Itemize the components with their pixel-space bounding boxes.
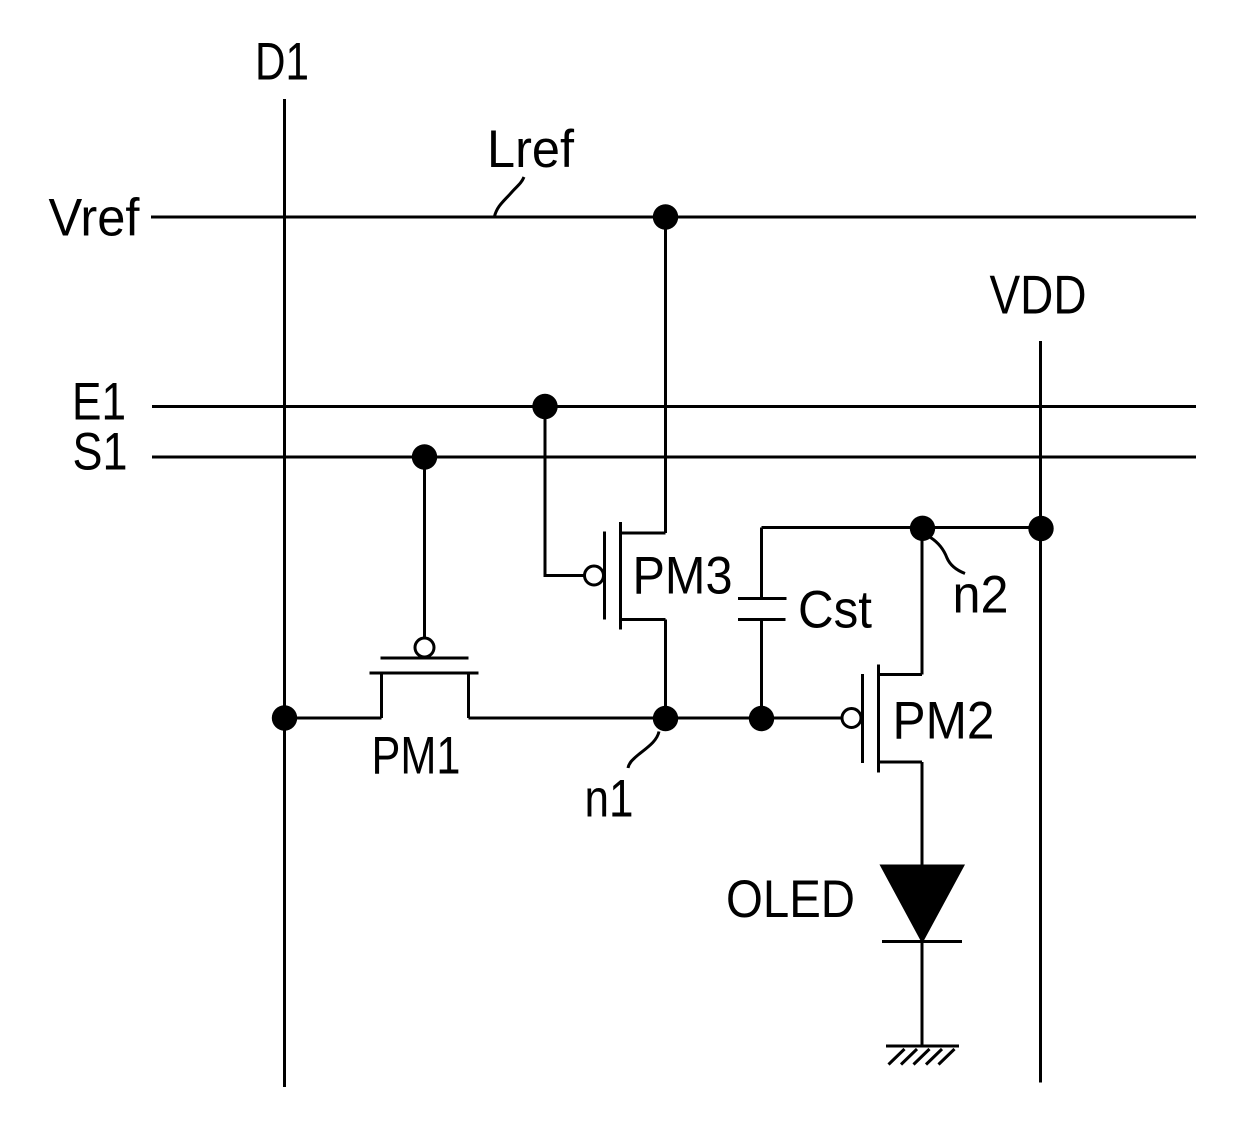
svg-text:n1: n1 [585,770,634,829]
wire PM1 to n1 to Cst to PM2 gate [469,717,842,720]
wire Lref drop from Vref to PM3 drain [664,217,667,533]
svg-text:Cst: Cst [798,581,872,640]
node n2 junction dot [910,516,935,541]
wire main row D1 to PM1 [285,717,382,720]
leader squiggle n2 [931,538,966,574]
wire S1 drop to PM1 gate [423,457,426,638]
svg-text:D1: D1 [255,33,309,92]
svg-text:PM2: PM2 [893,692,995,751]
transistor PM2 [842,528,922,866]
node junction dot E1 drop [532,394,557,419]
node junction dot Cst bottom [749,706,774,731]
capacitor Cst [738,528,787,719]
node junction dot Vref-Lref [653,204,678,229]
ground [886,1046,959,1065]
node junction dot VDD-n2 [1028,516,1053,541]
wire Vref horizontal line [151,216,1196,219]
wire S1 horizontal line [152,456,1196,459]
svg-text:n2: n2 [953,566,1009,625]
transistor PM3 [585,522,666,718]
wire D1 data line vertical [283,99,286,1087]
leader squiggle Lref [495,177,525,217]
svg-text:VDD: VDD [990,264,1087,326]
node junction dot D1 row [272,705,297,730]
wire node n2 row [762,526,1041,529]
node junction dot S1 drop [412,444,437,469]
svg-text:Lref: Lref [487,120,574,179]
svg-text:PM3: PM3 [633,547,733,606]
svg-text:Vref: Vref [49,189,140,248]
wire E1 horizontal line [152,405,1196,408]
transistor PM1 [370,638,479,718]
diode OLED [882,866,963,1046]
leader squiggle n1 [628,732,659,769]
svg-text:PM1: PM1 [372,727,461,786]
svg-text:S1: S1 [73,423,128,482]
svg-text:OLED: OLED [726,870,855,929]
wire VDD vertical line [1039,341,1042,1083]
node n1 junction dot [653,706,678,731]
wire E1 drop to PM3 gate [545,407,584,576]
